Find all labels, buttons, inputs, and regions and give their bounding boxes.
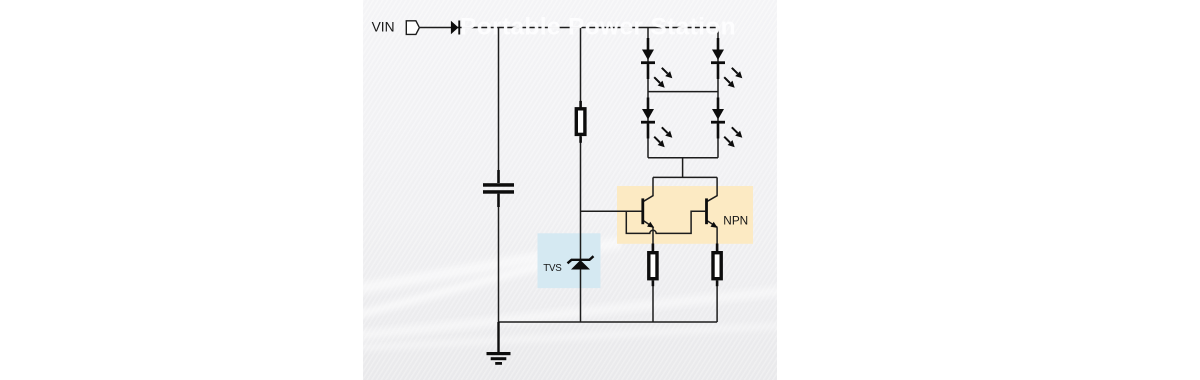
svg-text:TVS: TVS: [543, 263, 562, 274]
svg-text:VIN: VIN: [372, 20, 395, 35]
svg-text:NPN: NPN: [723, 213, 748, 227]
svg-text:Portable Power Station: Portable Power Station: [460, 14, 736, 41]
